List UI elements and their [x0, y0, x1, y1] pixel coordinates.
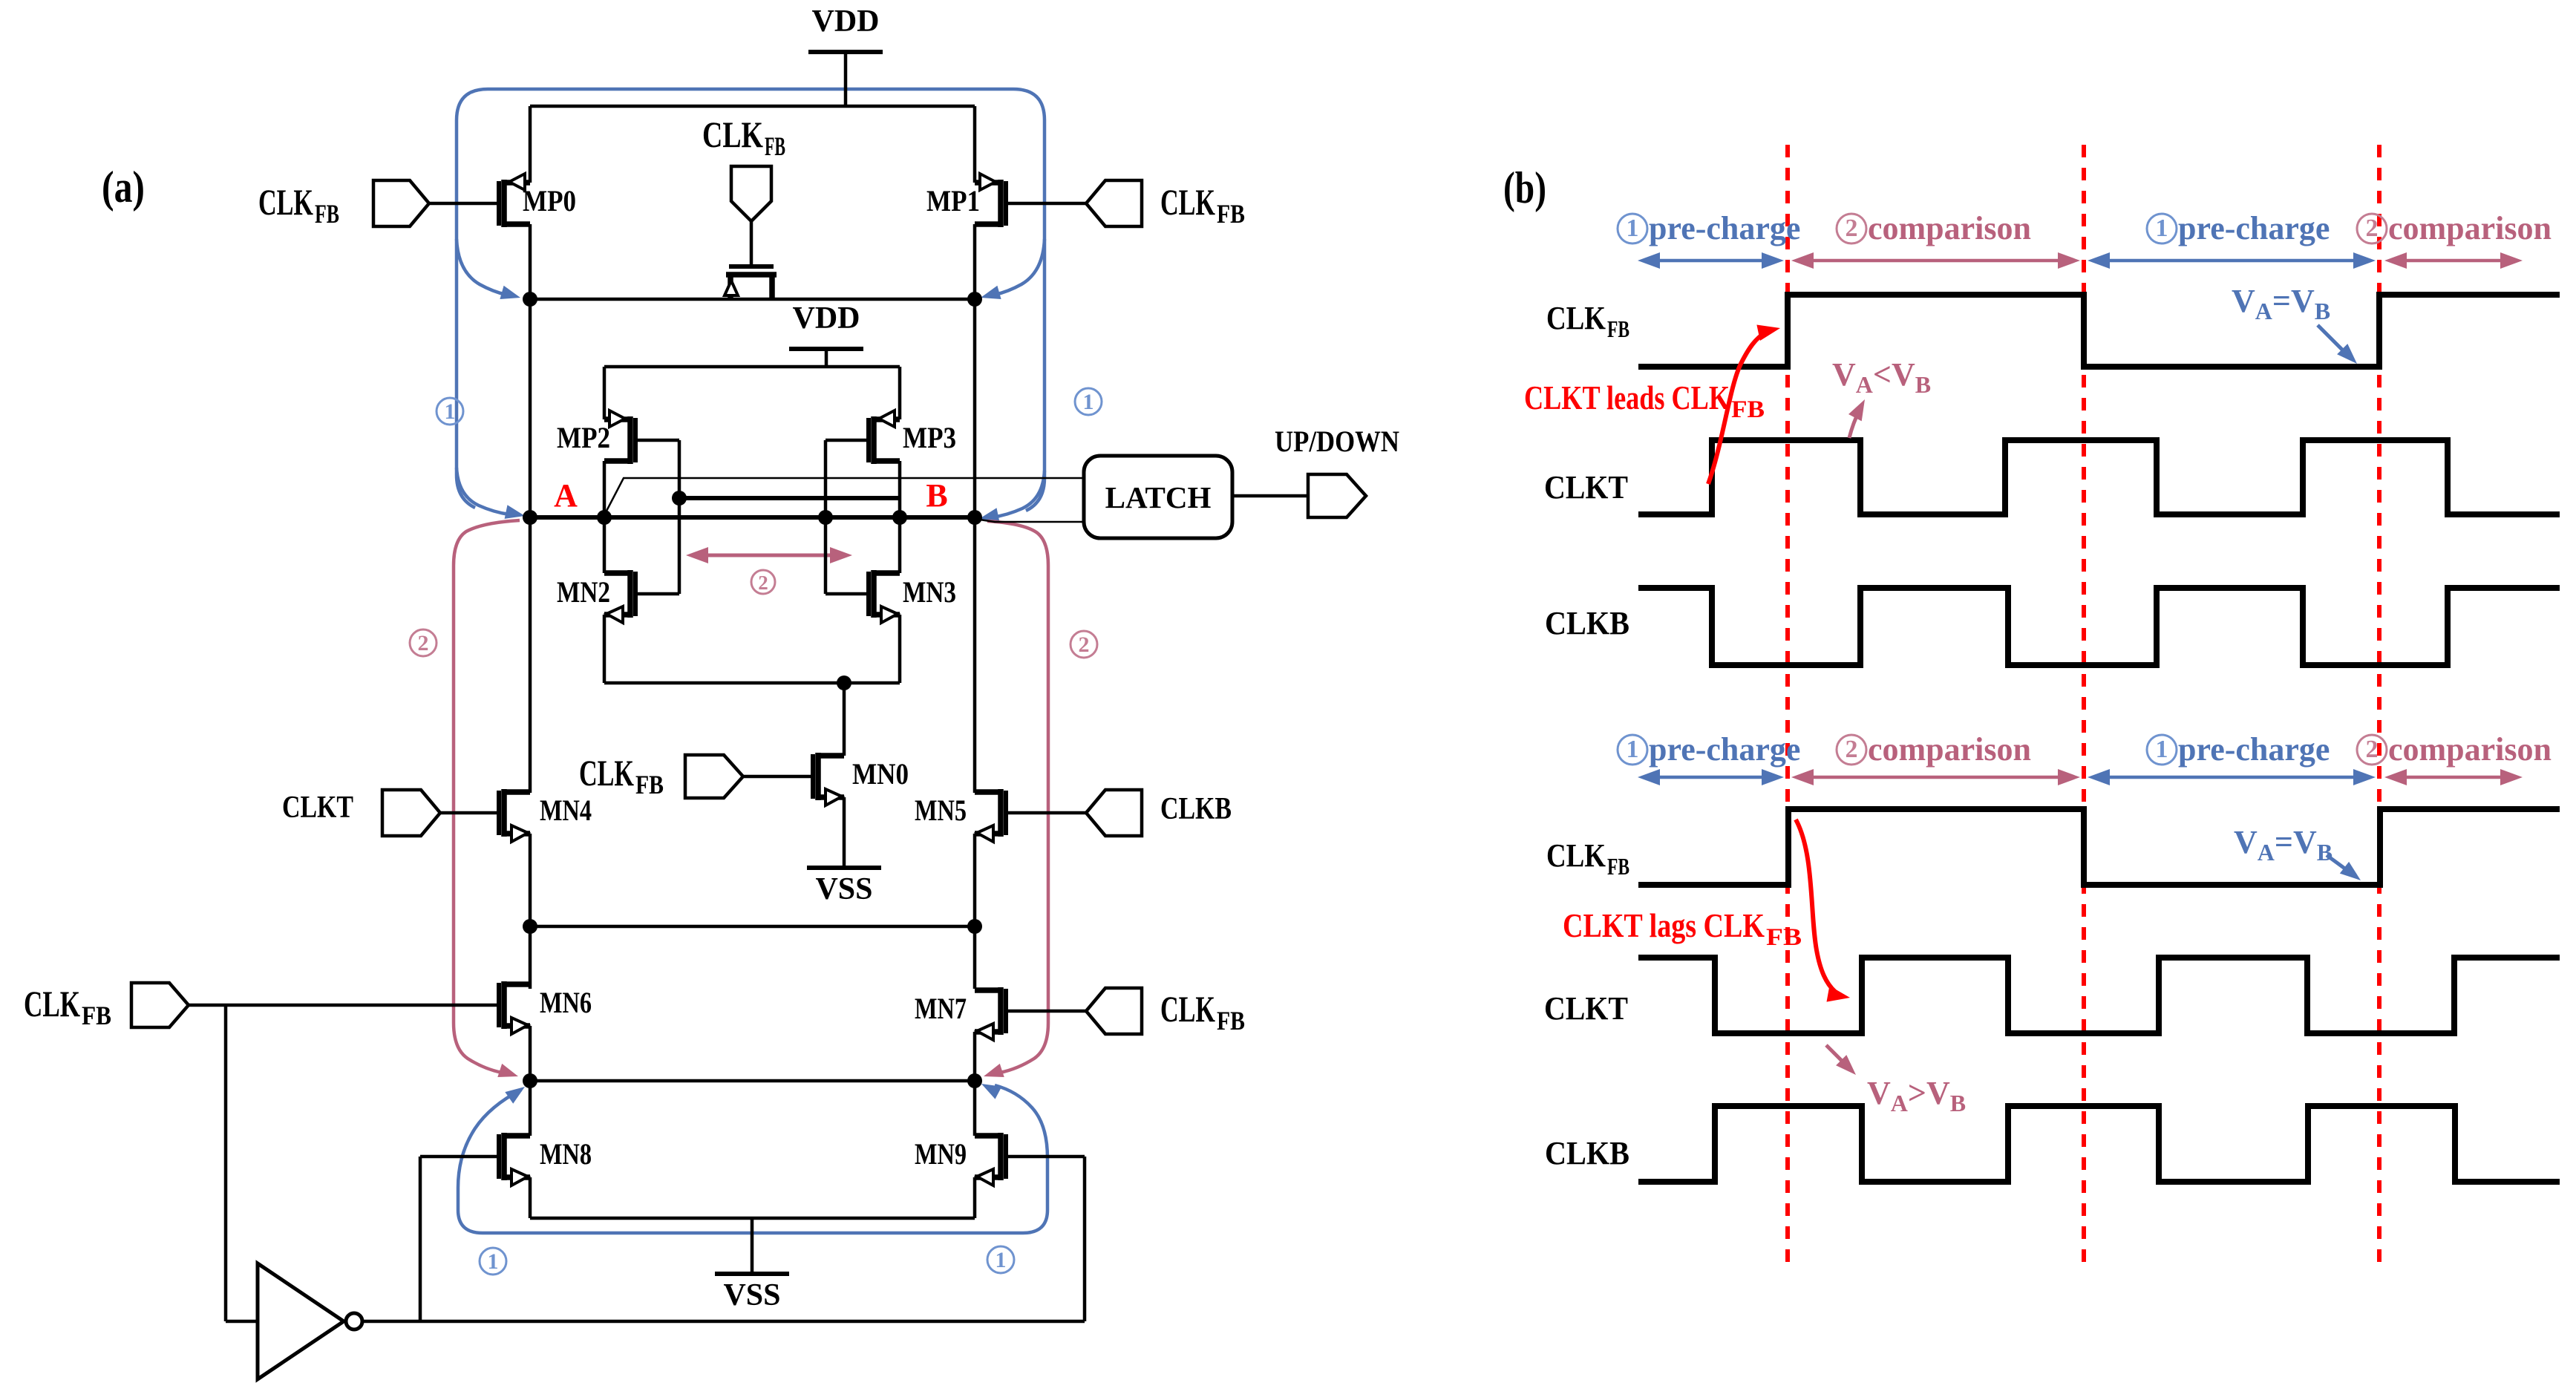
- svg-text:VDD: VDD: [793, 301, 860, 336]
- annotation VA equals VB (bottom, blue): [2234, 824, 2361, 880]
- svg-text:MN7: MN7: [915, 992, 967, 1025]
- label circled 1 (right of loop): [1075, 388, 1102, 415]
- VSS symbol (bottom): [715, 1218, 789, 1312]
- transistor MN3: [869, 570, 956, 623]
- label circled 1 (left of loop): [437, 398, 463, 425]
- wire A/B node rail: [530, 515, 975, 520]
- svg-text:FB: FB: [82, 1001, 111, 1030]
- svg-text:pre-charge: pre-charge: [2178, 731, 2330, 768]
- svg-text:FB: FB: [315, 199, 339, 229]
- node B (junction): [926, 477, 982, 525]
- svg-text:pre-charge: pre-charge: [1649, 731, 1800, 768]
- wire latch sense line from A (thin): [604, 478, 1084, 515]
- node mid rail 2 right (junction): [967, 1073, 982, 1088]
- svg-text:(b): (b): [1503, 163, 1546, 212]
- label phase 2 comparison (second): [2357, 210, 2552, 246]
- node mid rail 2 left (junction): [523, 1073, 537, 1088]
- wire MN8 gate feed: [420, 1157, 499, 1321]
- svg-text:CLK: CLK: [1160, 988, 1215, 1030]
- VDD supply (top): [808, 4, 883, 106]
- waveform CLKB (top): [1545, 588, 2560, 665]
- svg-text:CLK: CLK: [1160, 181, 1215, 223]
- transistor MN8: [499, 1133, 592, 1185]
- wire right rail (MP1 drain to node B to MN5): [973, 106, 977, 793]
- wire MN9 gate feed: [1006, 1157, 1085, 1321]
- arrow span comparison (second): [2384, 252, 2523, 269]
- transistor MN0: [813, 753, 909, 805]
- svg-text:2: 2: [1079, 632, 1090, 657]
- wire inner right column (MP3 source/drain, MN3): [898, 367, 902, 683]
- svg-text:LATCH: LATCH: [1105, 480, 1212, 514]
- svg-text:1: 1: [2156, 215, 2168, 242]
- svg-text:MN9: MN9: [915, 1137, 967, 1171]
- svg-text:B: B: [926, 477, 947, 514]
- waveform CLKT (top): [1544, 440, 2560, 514]
- annotation blue pre-charge loop 1 (bottom): [458, 1084, 1047, 1233]
- transistor MN6: [499, 981, 592, 1034]
- svg-text:MP3: MP3: [903, 421, 956, 454]
- wire left rail (MP0 drain to node A to MN4): [529, 106, 532, 793]
- label phase 1 pre-charge (second): [2147, 210, 2330, 246]
- svg-text:CLKT: CLKT: [1544, 469, 1628, 506]
- inverter: [258, 1263, 362, 1379]
- arrow span pre-charge (second): [2088, 252, 2376, 269]
- annotation VA less than VB (pink): [1832, 356, 1931, 438]
- svg-text:2: 2: [1846, 215, 1858, 242]
- waveform CLKFB (bottom): [1546, 809, 2560, 885]
- svg-text:1: 1: [488, 1249, 499, 1274]
- annotation pink comparison double arrow (center): [686, 547, 852, 563]
- wire latch output: [1232, 494, 1308, 498]
- svg-text:MP2: MP2: [557, 421, 610, 454]
- svg-text:1: 1: [1083, 390, 1094, 414]
- label phase 1 pre-charge (first): [1618, 210, 1800, 246]
- wire latch sense line from B (thin): [975, 519, 1084, 522]
- svg-text:CLK: CLK: [258, 181, 313, 223]
- label phase 2 comparison (first): [1837, 731, 2031, 768]
- transistor MP1: [926, 174, 1006, 227]
- label phase 1 pre-charge (second): [2147, 731, 2330, 768]
- annotation CLKT leads CLKFB (red): [1524, 325, 1780, 485]
- wire tail to MN0 drain: [843, 683, 846, 756]
- transistor MP0: [499, 174, 576, 227]
- transistor MN9: [915, 1133, 1006, 1185]
- wire mid rail 2: [530, 1026, 975, 1136]
- terminal CLKFB (top left input): [258, 180, 499, 229]
- svg-text:MN4: MN4: [540, 794, 592, 827]
- panel label (a): [102, 163, 145, 212]
- svg-text:MP0: MP0: [523, 184, 576, 217]
- svg-text:2: 2: [2366, 736, 2379, 763]
- node A (junction): [523, 477, 578, 525]
- svg-text:A: A: [554, 477, 578, 514]
- VSS symbol (under MN0): [807, 797, 881, 906]
- svg-text:CLKB: CLKB: [1545, 1135, 1629, 1171]
- svg-text:VSS: VSS: [723, 1278, 780, 1312]
- label circled 1 (bottom left): [480, 1248, 506, 1275]
- annotation VA greater than VB (pink): [1826, 1045, 1966, 1116]
- arrow span comparison (second): [2384, 769, 2523, 785]
- svg-text:CLK: CLK: [24, 983, 80, 1024]
- terminal CLKFB (right mid input): [1006, 988, 1245, 1036]
- svg-text:MN6: MN6: [540, 986, 592, 1019]
- node MP2 drain on A rail: [597, 510, 612, 525]
- wire mid rail 1: [530, 834, 975, 989]
- wire inner left column (MP2 source/drain, MN2): [603, 367, 607, 683]
- svg-text:1: 1: [445, 399, 456, 424]
- svg-text:MN5: MN5: [915, 794, 967, 827]
- node precharge right (junction): [967, 292, 982, 307]
- latch block: [1084, 456, 1232, 538]
- svg-text:CLK: CLK: [579, 752, 634, 794]
- transistor MN7: [915, 987, 1006, 1040]
- red dashed timeline 3: [2377, 145, 2382, 1262]
- svg-text:FB: FB: [1766, 924, 1802, 951]
- svg-text:2: 2: [2366, 215, 2379, 242]
- svg-text:VSS: VSS: [815, 872, 872, 906]
- svg-text:1: 1: [996, 1248, 1007, 1272]
- wire inverter output: [362, 1320, 1085, 1324]
- label circled 1 (bottom right): [987, 1246, 1014, 1273]
- svg-text:UP/DOWN: UP/DOWN: [1275, 425, 1399, 458]
- node mid rail left: [523, 919, 537, 934]
- wire MP3/MN3 gate feed: [826, 440, 869, 594]
- svg-text:comparison: comparison: [2388, 210, 2552, 246]
- svg-text:2: 2: [758, 572, 768, 594]
- svg-text:FB: FB: [1607, 853, 1629, 880]
- svg-text:pre-charge: pre-charge: [2178, 210, 2330, 246]
- svg-text:FB: FB: [1607, 315, 1629, 342]
- svg-text:CLKB: CLKB: [1160, 792, 1232, 826]
- annotation pink comparison loop 2 (left): [454, 520, 520, 1077]
- arrow span pre-charge (second): [2088, 769, 2376, 785]
- label phase 2 comparison (first): [1837, 210, 2031, 246]
- svg-text:CLKT lags CLK: CLKT lags CLK: [1563, 906, 1765, 944]
- svg-text:FB: FB: [765, 131, 785, 161]
- wire bottom rail: [530, 1177, 975, 1218]
- arrow span pre-charge (first): [1638, 252, 1784, 269]
- svg-text:FB: FB: [1731, 396, 1765, 423]
- arrow span comparison (first): [1791, 769, 2080, 785]
- VDD supply (inner): [789, 301, 863, 367]
- node tail junction: [837, 676, 851, 690]
- label circled 2 (center): [751, 570, 775, 594]
- svg-text:1: 1: [2156, 736, 2168, 763]
- svg-text:(a): (a): [102, 163, 145, 212]
- svg-text:CLK: CLK: [1546, 300, 1606, 336]
- transistor MOS capacitor (center): [725, 266, 777, 299]
- transistor MN2: [557, 570, 635, 623]
- node mid rail right: [967, 919, 982, 934]
- label circled 2 (right): [1070, 631, 1097, 658]
- annotation VA equals VB (top, blue): [2232, 283, 2357, 364]
- svg-text:CLKT leads CLK: CLKT leads CLK: [1524, 379, 1730, 416]
- terminal CLKFB (far left input): [24, 983, 499, 1030]
- arrow span pre-charge (first): [1638, 769, 1784, 785]
- svg-text:CLKT: CLKT: [282, 791, 353, 825]
- waveform CLKB (bottom): [1545, 1106, 2560, 1182]
- wire inner bottom rail: [604, 681, 900, 685]
- svg-text:FB: FB: [1217, 1006, 1245, 1036]
- svg-text:2: 2: [418, 631, 429, 655]
- svg-text:MN0: MN0: [852, 757, 909, 791]
- node MP3 drain on B rail: [892, 510, 907, 525]
- svg-text:1: 1: [1627, 736, 1639, 763]
- wire pre-charge node rail: [530, 298, 975, 301]
- svg-text:MN8: MN8: [540, 1137, 592, 1171]
- terminal CLKB (input): [1006, 790, 1232, 836]
- arrow span comparison (first): [1791, 252, 2080, 269]
- transistor MP2: [557, 410, 635, 464]
- terminal CLKT (input): [282, 790, 499, 836]
- svg-text:comparison: comparison: [1868, 731, 2031, 768]
- wire inner top rail: [604, 365, 900, 369]
- svg-text:MN3: MN3: [903, 575, 956, 609]
- panel label (b): [1503, 163, 1546, 212]
- wire MP2/MN2 gate feed: [636, 440, 679, 594]
- terminal CLKFB (top right input): [1006, 180, 1245, 229]
- transistor MN5: [915, 789, 1006, 842]
- node right gate feed on rail: [818, 510, 833, 525]
- svg-text:MN2: MN2: [557, 575, 610, 609]
- label phase 2 comparison (second): [2357, 731, 2552, 768]
- terminal CLKFB (gate of MN0): [579, 752, 812, 799]
- annotation CLKT lags CLKFB (red): [1563, 820, 1850, 1002]
- svg-text:comparison: comparison: [1868, 210, 2031, 246]
- svg-text:CLKT: CLKT: [1544, 990, 1628, 1027]
- terminal CLKFB (gate of MOS cap): [702, 114, 785, 264]
- node precharge left (junction): [523, 292, 537, 307]
- label circled 2 (left): [410, 629, 437, 656]
- svg-text:VDD: VDD: [812, 4, 880, 39]
- node gate link junction: [672, 491, 687, 506]
- svg-text:CLK: CLK: [1546, 837, 1606, 874]
- svg-text:CLK: CLK: [702, 114, 763, 155]
- svg-text:comparison: comparison: [2388, 731, 2552, 768]
- annotation blue pre-charge loop 1 (rounded box with arrows): [457, 89, 1045, 522]
- red dashed timeline 1: [1785, 145, 1790, 1262]
- svg-text:MP1: MP1: [926, 184, 980, 217]
- svg-text:CLKB: CLKB: [1545, 605, 1629, 641]
- wire cross-couple link (left gates to right drain): [679, 496, 900, 500]
- svg-text:pre-charge: pre-charge: [1649, 210, 1800, 246]
- label phase 1 pre-charge (first): [1618, 731, 1800, 768]
- svg-text:2: 2: [1846, 736, 1858, 763]
- transistor MP3: [869, 410, 956, 464]
- svg-text:1: 1: [1627, 215, 1639, 242]
- red dashed timeline 2: [2082, 145, 2086, 1262]
- waveform CLKT (bottom): [1544, 958, 2560, 1033]
- annotation pink comparison loop 2 (right): [984, 521, 1048, 1077]
- wire CLKFB to inverter input: [226, 1005, 258, 1321]
- wire top VDD rail: [530, 105, 975, 108]
- transistor MN4: [499, 789, 592, 842]
- terminal UP/DOWN (output): [1275, 425, 1399, 517]
- svg-text:FB: FB: [1217, 199, 1245, 229]
- svg-text:FB: FB: [635, 770, 664, 799]
- waveform CLKFB (top): [1546, 295, 2560, 367]
